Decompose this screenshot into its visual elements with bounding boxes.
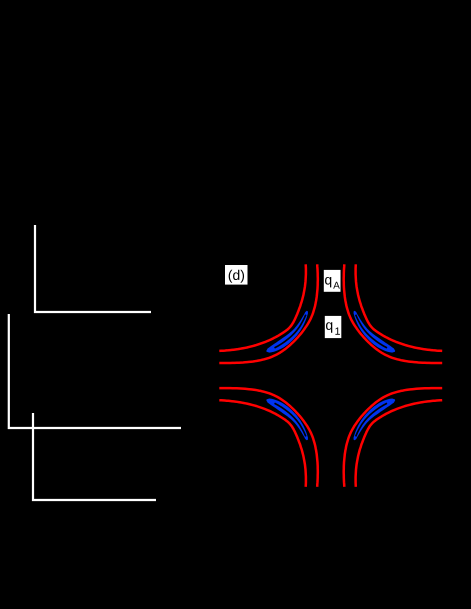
- axis L3 (bottom-left white axes): [33, 413, 156, 500]
- label (d): [225, 265, 248, 285]
- panel (d) bottom-right quadrant (mirror XY): [344, 388, 443, 487]
- axis L2 (middle-left white axes): [9, 314, 181, 428]
- label qA: [324, 270, 341, 292]
- panel (d) bottom-left quadrant (mirror Y): [219, 388, 317, 487]
- label q1: [325, 316, 342, 338]
- panel (d) top-left quadrant: [219, 264, 317, 363]
- axis L1 (top-left white axes): [35, 225, 151, 312]
- panel (d) top-right quadrant (mirror X): [344, 264, 443, 363]
